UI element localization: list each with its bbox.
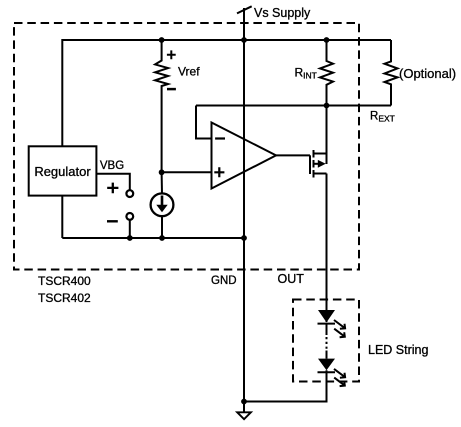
svg-text:(Optional): (Optional) <box>399 66 456 81</box>
svg-text:Vref: Vref <box>178 65 200 79</box>
svg-text:VBG: VBG <box>100 160 124 172</box>
svg-text:OUT: OUT <box>278 272 305 286</box>
svg-text:TSCR402: TSCR402 <box>38 291 91 305</box>
svg-text:GND: GND <box>211 275 237 287</box>
svg-text:TSCR400: TSCR400 <box>38 274 91 288</box>
svg-text:Regulator: Regulator <box>34 164 91 179</box>
svg-text:LED String: LED String <box>368 343 428 357</box>
svg-text:Vs Supply: Vs Supply <box>254 6 311 20</box>
